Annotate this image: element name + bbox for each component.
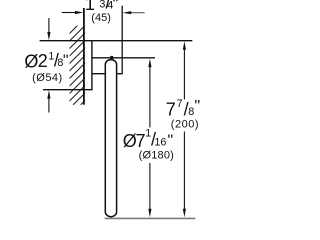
- holder arm bottom: [92, 73, 123, 75]
- towel ring (side profile capsule): [105, 60, 116, 217]
- label 1 3/4 inch: [85, 0, 118, 14]
- dimension 45: left arrow: [62, 12, 76, 14]
- label 7 7/8 inch: [166, 98, 200, 120]
- dimension 45: right arrow: [131, 12, 145, 14]
- dimension 54: top arrow (down): [48, 18, 50, 33]
- label diameter 7 1/16 inch: [123, 128, 173, 151]
- holder arm top / extension line (180 top): [92, 57, 155, 59]
- dimension 200: line with bottom arrow: [183, 132, 185, 210]
- svg-text:7: 7: [136, 131, 146, 151]
- wall hatch: [62, 11, 92, 131]
- holder arm right edge / extension line (45 right): [121, 6, 123, 75]
- ring pivot nub: [110, 56, 113, 60]
- svg-text:7: 7: [177, 98, 183, 110]
- svg-text:7: 7: [166, 100, 176, 120]
- wall plate front edge: [91, 41, 93, 90]
- svg-text:8: 8: [188, 106, 194, 118]
- dimension 54: bottom arrow (up): [48, 98, 50, 113]
- wall line: [83, 8, 85, 105]
- svg-text:": ": [63, 53, 69, 70]
- label diameter 2 1/8 inch: [24, 50, 68, 71]
- dimension 180: line with bottom arrow: [149, 163, 151, 209]
- wall plate bottom / extension line (54 bottom): [43, 89, 93, 91]
- svg-text:(Ø54): (Ø54): [32, 72, 63, 84]
- svg-text:2: 2: [38, 51, 48, 71]
- svg-text:(45): (45): [91, 12, 111, 24]
- svg-text:3: 3: [99, 0, 105, 10]
- bottom extension line (180/200 bottom): [105, 217, 196, 219]
- svg-text:(Ø180): (Ø180): [139, 150, 174, 162]
- svg-text:": ": [113, 0, 119, 13]
- dimension 180: line with top arrow: [149, 67, 151, 128]
- svg-text:Ø: Ø: [24, 51, 38, 71]
- wall plate top / extension line (45 top + 200 top): [40, 40, 193, 42]
- svg-text:": ": [195, 98, 201, 115]
- svg-text:": ": [168, 133, 174, 150]
- svg-text:16: 16: [154, 136, 166, 148]
- svg-text:(200): (200): [171, 119, 199, 131]
- dimension 200: line with top arrow: [183, 50, 185, 100]
